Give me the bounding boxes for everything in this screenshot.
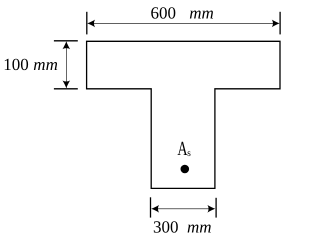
bottom dimension left extension line [150, 197, 152, 217]
bottom dimension left arrowhead [151, 205, 159, 213]
bottom dimension line (300 mm web width) [153, 208, 215, 210]
svg-text:600: 600 [151, 3, 177, 22]
left dimension bottom tick line [54, 88, 78, 90]
top dimension line (600 mm span) [89, 22, 278, 24]
top dimension right extension line [279, 12, 281, 35]
left dimension down arrowhead [63, 80, 71, 88]
svg-text:mm: mm [33, 55, 58, 74]
left dimension line (100 mm flange depth) [65, 42, 67, 88]
top dimension left arrowhead [87, 20, 95, 28]
rebar dot As [181, 165, 190, 174]
svg-text:100: 100 [3, 55, 29, 74]
svg-text:300: 300 [153, 217, 179, 236]
top dimension left extension line [86, 12, 88, 35]
T-beam cross-section outline [87, 41, 280, 188]
bottom dimension right arrowhead [207, 205, 215, 213]
top dimension right arrowhead [272, 20, 280, 28]
svg-text:mm: mm [189, 3, 214, 22]
left dimension top tick line [54, 40, 78, 42]
bottom dimension right extension line [215, 198, 217, 218]
left dimension up arrowhead [63, 41, 71, 49]
svg-text:mm: mm [187, 217, 212, 236]
svg-text:s: s [187, 148, 191, 159]
